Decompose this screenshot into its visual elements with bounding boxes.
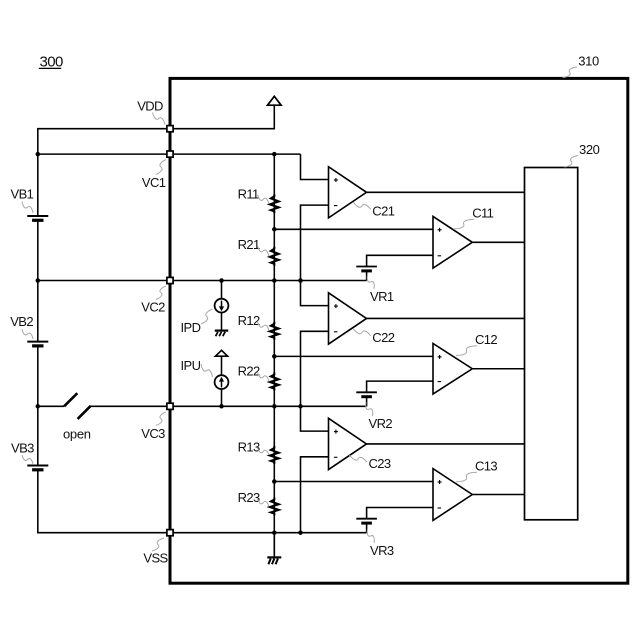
ground (IPD)	[215, 330, 229, 332]
wire IPD from VC2	[221, 281, 223, 299]
wire VC2 external	[38, 280, 166, 282]
svg-text:C23: C23	[369, 456, 391, 471]
wire C21 minus-input from next cell line	[301, 205, 329, 280]
wire C23 plus-input step	[301, 406, 329, 431]
battery VB3	[27, 465, 48, 467]
junction chain/VC2	[36, 278, 41, 283]
wire C21 output to box 320	[367, 191, 525, 193]
svg-text:VC2: VC2	[141, 300, 165, 315]
svg-text:VDD: VDD	[137, 98, 163, 113]
junction VC2/IPD	[219, 278, 224, 283]
svg-text:R21: R21	[238, 237, 260, 252]
svg-text:R23: R23	[238, 490, 260, 505]
svg-text:R11: R11	[238, 186, 259, 201]
junction VSS/bus	[272, 530, 277, 535]
wire VR2 bottom to cell line	[366, 397, 368, 407]
resistor R13	[273, 448, 275, 462]
wire bus to ground	[273, 533, 275, 558]
svg-text:R12: R12	[238, 313, 260, 328]
wire VR1 bottom to cell line	[366, 271, 368, 281]
resistor R21	[273, 249, 275, 264]
wire battery chain segment VDD corner to VB1	[37, 128, 39, 216]
wire C11 output to box 320	[472, 241, 524, 243]
svg-text:310: 310	[578, 54, 599, 69]
resistor R22	[273, 375, 275, 389]
svg-text:C21: C21	[372, 203, 394, 218]
junction chain/VC1	[36, 152, 41, 157]
svg-text:C22: C22	[372, 330, 394, 345]
svg-text:320: 320	[579, 142, 600, 157]
svg-text:VSS: VSS	[143, 550, 168, 565]
wire resistor bus segment 2	[273, 211, 275, 249]
junction VC1/bus	[272, 152, 277, 157]
junction VC3/bus	[272, 404, 277, 409]
wire VSS internal	[174, 532, 367, 534]
op-amp comparator C23	[329, 418, 367, 469]
svg-text:VR3: VR3	[370, 543, 394, 558]
svg-text:R22: R22	[238, 364, 260, 379]
reference source VR2 (battery)	[356, 391, 377, 393]
junction divider node 3	[272, 479, 277, 484]
junction VC2/bus	[272, 278, 277, 283]
svg-text:VB2: VB2	[10, 314, 33, 329]
junction VC3/step	[298, 404, 303, 409]
wire C12 output to box 320	[472, 368, 524, 370]
wire C21 plus-input step	[301, 154, 329, 179]
op-amp comparator C13	[433, 469, 472, 521]
svg-text:VC1: VC1	[142, 175, 166, 190]
wire VC1 internal	[174, 153, 301, 155]
wire VC3 internal	[174, 405, 367, 407]
svg-text:open: open	[63, 426, 91, 441]
wire chain VB2 to VB3	[37, 346, 39, 466]
wire resistor bus segment 4	[273, 338, 275, 375]
junction VC3/IPU	[219, 404, 224, 409]
wire C23 output to box 320	[367, 443, 525, 445]
terminal VC2	[167, 277, 173, 283]
wire VC3 external right of switch	[90, 405, 167, 407]
svg-text:VC3: VC3	[141, 426, 165, 441]
wire C13 output to box 320	[472, 494, 524, 496]
wire IPU arrow to circle	[221, 356, 223, 375]
VDD power symbol (open up triangle)	[268, 96, 282, 105]
junction VSS/step	[298, 530, 303, 535]
wire VR3 top to C13 minus input	[367, 508, 433, 519]
junction VC2/step	[298, 278, 303, 283]
op-amp comparator C11	[433, 216, 472, 268]
terminal VSS	[167, 530, 173, 536]
battery VB1	[27, 215, 48, 217]
wire chain VB1 to VB2	[37, 220, 39, 341]
wire chain VB3 to VSS corner	[37, 470, 39, 534]
junction divider node 1	[272, 227, 277, 232]
outer IC box 310	[170, 78, 628, 583]
wire VR2 top to C12 minus input	[367, 381, 433, 392]
switch blade 2 (open)	[78, 406, 91, 419]
wire C22 plus-input step	[301, 281, 329, 306]
wire resistor bus segment 6	[273, 462, 275, 500]
resistor R11	[273, 196, 275, 211]
junction divider node 2	[272, 354, 277, 359]
wire VR1 top to C11 minus input	[367, 255, 433, 266]
svg-text:VB3: VB3	[11, 440, 34, 455]
IPU up-arrow head (open triangle)	[215, 350, 227, 356]
svg-text:R13: R13	[238, 440, 260, 455]
reference source VR1 (battery)	[356, 266, 377, 268]
wire VC1 external	[38, 153, 166, 155]
terminal VC1	[167, 151, 173, 157]
svg-text:IPD: IPD	[181, 320, 201, 335]
wire divider node 229.3 to C11 plus input	[274, 228, 433, 230]
svg-text:C11: C11	[472, 205, 493, 220]
wire VC2 internal	[174, 280, 367, 282]
wire resistor bus segment 1	[273, 154, 275, 196]
wire divider node 356.4 to C12 plus input	[274, 355, 433, 357]
resistor R23	[273, 500, 275, 514]
svg-text:C13: C13	[475, 458, 497, 473]
wire VDD internal to power symbol riser	[174, 105, 274, 129]
terminal VDD	[167, 126, 173, 132]
svg-text:VB1: VB1	[11, 186, 34, 201]
op-amp comparator C12	[433, 344, 472, 395]
svg-text:VR1: VR1	[370, 289, 394, 304]
wire resistor bus segment 7	[273, 514, 275, 556]
wire resistor bus segment 3	[273, 264, 275, 324]
wire IPD to ground	[221, 312, 223, 330]
wire VDD external (top rail to VDD terminal)	[38, 128, 166, 130]
wire resistor bus segment 5	[273, 389, 275, 449]
wire C22 minus-input from next cell line	[301, 331, 329, 406]
wire VC3 external left of switch	[38, 405, 64, 407]
wire VR3 bottom to cell line	[366, 523, 368, 533]
terminal VC3	[167, 403, 173, 409]
resistor R12	[273, 324, 275, 338]
wire VSS external	[38, 532, 166, 534]
ground (main)	[267, 556, 281, 558]
battery VB2	[27, 341, 48, 343]
wire C23 minus-input from next cell line	[301, 457, 329, 533]
switch blade 1 (open)	[64, 393, 77, 406]
wire IPU to VC3	[221, 389, 223, 406]
current source IPU (circle, up arrow)	[215, 375, 229, 389]
reference source VR3 (battery)	[356, 518, 377, 520]
wire C22 output to box 320	[367, 317, 525, 319]
op-amp comparator C21	[329, 167, 367, 218]
svg-text:VR2: VR2	[369, 416, 393, 431]
svg-text:IPU: IPU	[181, 358, 201, 373]
current source IPD (circle, down arrow)	[215, 299, 229, 313]
inner output block box 320	[525, 168, 578, 520]
junction chain/VC3	[36, 404, 41, 409]
svg-text:C12: C12	[475, 332, 497, 347]
wire divider node 481.5 to C13 plus input	[274, 481, 433, 483]
op-amp comparator C22	[329, 293, 367, 344]
